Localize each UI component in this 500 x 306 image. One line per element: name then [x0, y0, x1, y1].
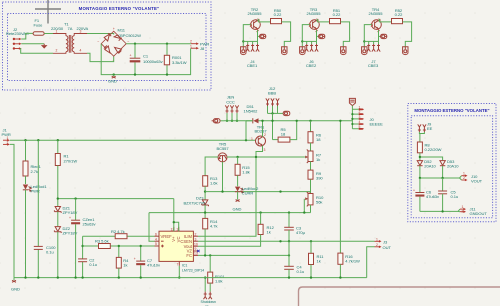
capacitor C100 0.1u	[34, 245, 56, 254]
potentiometer R10 56k	[303, 192, 324, 214]
main positive rail	[10, 139, 256, 141]
svg-text:C1: C1	[143, 54, 149, 59]
svg-text:MONTAGGIO ESTERNO "VOLANTE": MONTAGGIO ESTERNO "VOLANTE"	[414, 108, 489, 113]
svg-text:4: 4	[155, 237, 157, 241]
svg-text:10: 10	[194, 242, 198, 246]
wire TR2 collector to R50	[257, 20, 270, 22]
capacitor C6 47u63v	[413, 177, 440, 212]
capacitor C3 470u	[284, 213, 305, 242]
capacitor CZen1 25u63v	[69, 199, 97, 278]
resistor R5 18	[273, 120, 298, 143]
svg-text:4.7k/1W: 4.7k/1W	[345, 259, 360, 264]
node D51 feed	[245, 139, 247, 141]
IC1 LM723_DIP14	[155, 227, 205, 272]
earth ground symbol	[41, 44, 48, 49]
plug (emitter probe)	[258, 35, 260, 37]
connector J10 VOUT	[460, 172, 483, 184]
node CZen1 top line	[74, 197, 76, 199]
node R4 top	[118, 245, 120, 247]
capacitor C7 47u10v	[134, 246, 161, 278]
transformer T1 220/30 7A 220VA	[51, 22, 88, 54]
svg-text:4: 4	[80, 49, 82, 53]
base line to R10	[205, 192, 310, 194]
wire TR5 base down	[222, 162, 224, 192]
node base/pins junction	[301, 40, 303, 42]
svg-text:1.8k: 1.8k	[215, 279, 223, 284]
svg-text:5: 5	[155, 242, 157, 246]
wire TR4 emitter	[378, 30, 380, 41]
svg-text:EEEEE: EEEEE	[370, 122, 384, 127]
transistor TR5 BC557	[216, 142, 229, 162]
wire pins bar	[302, 40, 316, 42]
svg-text:2N3055: 2N3055	[307, 11, 322, 16]
wire TR3 base	[302, 25, 310, 47]
svg-text:BBB: BBB	[268, 91, 276, 96]
svg-text:-: -	[113, 58, 114, 62]
transistor cell TR4 / R52 / J7 CBE3	[362, 7, 412, 68]
sheet frame corner (bottom right)	[299, 287, 500, 306]
plug (emitter probe)	[379, 35, 381, 37]
svg-text:7A: 7A	[68, 26, 73, 31]
svg-text:2: 2	[195, 232, 197, 236]
svg-text:CBE2: CBE2	[306, 63, 317, 68]
minus pin riser	[149, 213, 155, 242]
wire TR2 base	[243, 25, 251, 47]
svg-text:6: 6	[155, 232, 157, 236]
node R001 top	[166, 43, 168, 45]
transistor TR1 BD237	[251, 124, 267, 151]
node DZ3/feedback line	[204, 211, 206, 213]
LED LedMod2 CURR	[235, 186, 259, 200]
svg-text:20A10: 20A10	[424, 164, 436, 169]
resistor R6 18	[308, 120, 322, 151]
resistor R11 1k	[309, 241, 325, 277]
wire R50 to pad2	[282, 22, 291, 47]
svg-text:25u63v: 25u63v	[83, 222, 97, 227]
connector J12 BBB	[266, 86, 283, 115]
connector J0 EEEEE	[351, 105, 383, 129]
svg-text:VOUT: VOUT	[471, 179, 483, 184]
fuse F1	[33, 18, 44, 35]
svg-text:0.22: 0.22	[274, 12, 282, 17]
svg-text:1.6k: 1.6k	[210, 181, 218, 186]
resistor R4 1k	[116, 246, 129, 278]
wire R51 to pad2	[341, 22, 350, 47]
plus pin line / resistor R3 5.6k	[83, 238, 155, 248]
svg-text:M11: M11	[118, 28, 126, 33]
node base/pins junction	[363, 40, 365, 42]
svg-text:2: 2	[376, 243, 378, 247]
node R1 top	[57, 139, 59, 141]
diode D52 20A10	[417, 159, 436, 178]
zener diode DZ3 BZX79C7V5	[183, 195, 208, 218]
capacitor C5 0.1u	[438, 178, 458, 211]
J12 column down to R5	[272, 113, 274, 139]
feedback line (212.6)	[149, 212, 311, 214]
node C1 top	[134, 43, 136, 45]
wire TR2 emitter	[257, 30, 259, 41]
connector JEN CCC	[225, 95, 238, 122]
svg-text:0.1u: 0.1u	[89, 262, 97, 267]
svg-text:3: 3	[80, 30, 82, 34]
resistor R14 4.7k	[203, 218, 219, 255]
svg-text:270/1W: 270/1W	[64, 159, 78, 164]
svg-text:1: 1	[56, 30, 58, 34]
node C7 top	[140, 245, 142, 247]
gray crosshair fiducial	[35, 0, 61, 24]
svg-text:1N5402: 1N5402	[244, 109, 259, 114]
plug (right of J12)	[283, 111, 290, 115]
svg-text:0.1u: 0.1u	[46, 249, 54, 254]
plug (emitter probe)	[317, 35, 319, 37]
svg-text:~: ~	[127, 40, 129, 44]
svg-text:1: 1	[251, 137, 253, 141]
svg-text:390: 390	[316, 176, 323, 181]
diode D51 1N5402	[244, 104, 259, 123]
connector pins C B E	[305, 44, 318, 52]
connector J8 PWR (output of PSU)	[190, 40, 209, 51]
connector J1 PWR	[2, 128, 11, 146]
wire TR4 base	[364, 25, 372, 47]
svg-text:1: 1	[376, 237, 378, 241]
svg-text:47u10v: 47u10v	[147, 263, 161, 268]
pad 2 (collector)	[341, 47, 346, 55]
svg-text:1: 1	[359, 105, 361, 109]
svg-text:+: +	[134, 257, 136, 261]
svg-text:0.22: 0.22	[395, 12, 403, 17]
wire J2 pin2 to earth	[21, 43, 44, 45]
capacitor C4 0.1u	[284, 241, 304, 277]
svg-text:Fuse: Fuse	[34, 22, 44, 27]
node R13 bottom / base line	[204, 190, 206, 192]
svg-text:56k: 56k	[316, 200, 323, 205]
connector J9 EE	[418, 122, 433, 143]
resistor R001 3.3k/1W	[164, 44, 186, 75]
svg-text:CBE3: CBE3	[368, 63, 379, 68]
svg-text:BC557: BC557	[216, 146, 229, 151]
svg-text:+: +	[413, 188, 415, 192]
wire J1 pin2 down to ground rail	[10, 144, 14, 277]
R2 column	[82, 236, 84, 277]
tag symbol above J0	[349, 98, 355, 105]
svg-text:+: +	[130, 54, 132, 58]
svg-text:OUT: OUT	[383, 245, 392, 250]
svg-text:2N3055: 2N3055	[248, 11, 263, 16]
svg-text:GND: GND	[108, 79, 117, 84]
svg-text:GND: GND	[233, 207, 242, 212]
wire T1 secondary top to bridge	[87, 34, 114, 35]
wire pins bar	[243, 40, 257, 42]
V+ supply riser to IC	[174, 199, 179, 232]
resistor R1 270/1W	[55, 140, 77, 206]
positive rail from bridge to J8	[126, 43, 191, 45]
TR1 collector to sense line	[262, 121, 264, 137]
blue no-connect on VZ pin	[197, 250, 199, 252]
IC pin7 to ground rail	[178, 266, 180, 278]
wire TR4 collector to R52	[378, 20, 391, 22]
svg-text:20A10: 20A10	[447, 164, 459, 169]
CSEN line (A) to J3	[198, 240, 375, 242]
pad 2 (collector)	[403, 47, 408, 55]
connector J11 GNDOUT	[458, 205, 487, 216]
resistor Rled1 2.7k	[23, 140, 42, 176]
svg-text:BZX79C7V5: BZX79C7V5	[183, 200, 206, 205]
svg-text:3.3k/1W: 3.3k/1W	[172, 60, 187, 65]
output sense line	[224, 120, 352, 122]
dashed frame box top-left (inner)	[8, 14, 207, 81]
svg-text:EE: EE	[427, 126, 433, 131]
resistor R12 1k	[198, 213, 275, 247]
node DZ1 top line	[57, 197, 59, 199]
svg-text:IC1: IC1	[182, 264, 187, 268]
svg-text:2N3055: 2N3055	[369, 11, 384, 16]
node R12 top	[259, 211, 261, 213]
pad 2 (collector)	[282, 47, 287, 55]
svg-text:2: 2	[359, 110, 361, 114]
pad 1 (base)	[241, 47, 246, 55]
dashed frame box top-left (outer)	[3, 2, 212, 90]
svg-text:0.1u: 0.1u	[297, 269, 305, 274]
svg-text:470µ: 470µ	[296, 230, 306, 235]
ground rail (main)	[14, 277, 367, 279]
svg-text:4: 4	[359, 120, 361, 124]
zener diode DZ1 ZPY18V	[54, 206, 77, 227]
capacitor C1 10000u63v	[130, 44, 164, 75]
bridge rectifier M11 KBPC5012W	[97, 27, 141, 62]
svg-text:1.8k: 1.8k	[242, 170, 250, 175]
ground symbol GND (main, left)	[11, 278, 20, 292]
transistor cell TR3 / R51 / J6 CBE2	[300, 7, 350, 68]
svg-text:7: 7	[177, 262, 179, 266]
zener diode DZ2 ZPY18V	[54, 226, 77, 278]
svg-text:CURR: CURR	[242, 191, 254, 196]
svg-text:3: 3	[359, 115, 361, 119]
ground rail of PSU	[101, 44, 190, 75]
plug (left of JEN)	[212, 119, 224, 123]
resistor R13 1.6k	[203, 176, 219, 200]
TR1 emitter down to ILIM	[198, 146, 263, 237]
wire J2 pin3 to transformer primary bottom	[20, 49, 53, 54]
svg-text:11: 11	[176, 227, 180, 231]
svg-text:VC: VC	[176, 237, 181, 243]
wire J2 pin1 to fuse	[21, 33, 33, 39]
ground symbol GND (PSU)	[108, 75, 117, 84]
resistor R16 4.7k/1W	[338, 120, 360, 278]
svg-text:2: 2	[56, 49, 58, 53]
svg-text:3: 3	[264, 148, 266, 152]
wire D51 to rail	[245, 121, 247, 140]
resistor R8 0.22/20W	[417, 142, 441, 160]
svg-text:~: ~	[97, 40, 99, 44]
dashed frame box right (outer)	[408, 104, 496, 222]
svg-text:LM723_DIP14: LM723_DIP14	[182, 268, 204, 272]
ground symbol (LedMod2)	[233, 200, 242, 212]
pad 1 (base)	[362, 47, 367, 55]
svg-text:3: 3	[195, 237, 197, 241]
connector pins C B E	[246, 44, 259, 52]
node Rled1 top	[24, 139, 26, 141]
wire TR3 emitter	[316, 30, 318, 41]
node C3 top	[288, 211, 290, 213]
svg-text:KBPC5012W: KBPC5012W	[118, 33, 142, 38]
wire fuse to T1 primary	[44, 33, 53, 35]
wire TR5 right / current sense line	[227, 156, 304, 158]
svg-text:2: 2	[190, 40, 192, 44]
svg-text:2: 2	[463, 176, 465, 180]
svg-text:+: +	[69, 216, 71, 220]
wire TR5 left to R13 column	[205, 157, 218, 176]
connector J2 Rete230VAC	[6, 27, 29, 50]
svg-text:10000u63v: 10000u63v	[143, 59, 164, 64]
connector J5 Shutdown	[201, 292, 216, 306]
svg-text:4.7k: 4.7k	[210, 224, 218, 229]
svg-text:GND: GND	[11, 286, 20, 291]
diode D53 20A10	[419, 156, 460, 178]
connector J3 OUT	[367, 237, 392, 277]
wire T1 secondary bottom to bridge	[87, 53, 114, 61]
node base/pins junction	[242, 40, 244, 42]
svg-text:0.22/20W: 0.22/20W	[425, 147, 442, 152]
resistor R9 390	[308, 170, 323, 192]
shutdown stub from ground rail	[204, 278, 206, 292]
wire TR3 collector to R51	[316, 20, 329, 22]
zener reference line	[58, 198, 174, 200]
wire R52 to pad2	[403, 22, 412, 47]
capacitor C2 0.1u	[78, 258, 97, 268]
dashed frame box right (inner)	[411, 116, 492, 218]
LED LedRod1 PWR	[23, 176, 48, 278]
svg-text:5: 5	[359, 125, 361, 129]
svg-text:2.7k: 2.7k	[31, 169, 39, 174]
svg-text:FC: FC	[186, 253, 192, 258]
svg-text:0.1u: 0.1u	[451, 194, 459, 199]
ground line to J11	[420, 210, 458, 212]
VREF net / resistor R2 4.7k	[83, 229, 155, 239]
svg-text:220VA: 220VA	[77, 26, 89, 31]
svg-text:9: 9	[195, 247, 197, 251]
node C100 column top	[37, 139, 39, 141]
transistor cell TR2 / R50 / J4 CBE1	[241, 7, 291, 68]
svg-text:GNDOUT: GNDOUT	[470, 211, 488, 216]
pad 1 (base)	[300, 47, 305, 55]
svg-text:+: +	[113, 27, 115, 31]
C100 column	[37, 140, 39, 277]
svg-text:0.22: 0.22	[333, 12, 341, 17]
resistor R15 1.8k	[235, 156, 251, 187]
output line to J10	[420, 177, 460, 179]
connector pins C B E	[367, 44, 380, 52]
svg-text:CBE1: CBE1	[247, 63, 258, 68]
svg-text:2: 2	[264, 133, 266, 137]
svg-text:R3 5.6k: R3 5.6k	[95, 238, 110, 243]
svg-text:220/30: 220/30	[51, 26, 64, 31]
resistor R101 1.8k	[208, 255, 226, 291]
svg-text:MONTAGGIO ESTERNO "VOLANTE": MONTAGGIO ESTERNO "VOLANTE"	[79, 6, 160, 11]
FC line	[198, 254, 289, 256]
svg-text:CCC: CCC	[226, 99, 235, 104]
wire pins bar	[364, 40, 378, 42]
svg-text:47u63v: 47u63v	[426, 194, 440, 199]
potentiometer R7 1k	[304, 150, 322, 171]
